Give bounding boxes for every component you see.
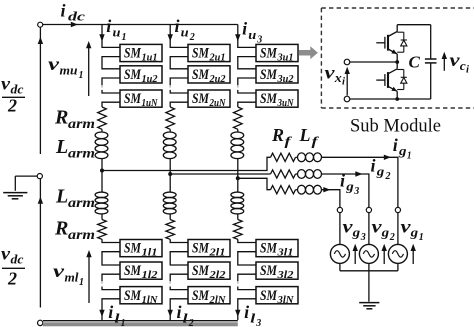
resistor R_arm upper leg 2 <box>166 107 175 129</box>
wire: lower arm from junction 3 <box>237 178 239 192</box>
arrow: submodule detail callout (gray) <box>299 46 318 59</box>
svg-text:1l2: 1l2 <box>142 270 158 281</box>
wire: omitted submodules upper leg 3 (dashed) <box>237 85 239 90</box>
svg-text:2: 2 <box>389 232 395 243</box>
inductor L_f phase 3 <box>298 185 306 194</box>
transistor S1 (upper IGBT) <box>396 25 398 32</box>
wire: lower arm from junction 1 <box>101 171 103 193</box>
AC source v_g1 <box>388 244 407 263</box>
wire: SM_3u1 to SM_3u2 <box>238 57 256 69</box>
svg-text:L: L <box>55 136 68 158</box>
svg-text:SM: SM <box>260 67 278 83</box>
wire: neutral stem <box>368 271 370 302</box>
wire: SM_2u1 to SM_2u2 <box>170 57 188 69</box>
wire <box>169 129 171 132</box>
wire: omitted submodules upper leg 1 (dashed) <box>101 85 103 90</box>
wire: to phase junction 2 <box>169 159 171 174</box>
wire: SM_1uN entry <box>102 90 120 93</box>
arrow: v_dc/2 upper (up) <box>38 37 43 44</box>
svg-text:SM: SM <box>192 91 210 107</box>
wire <box>296 156 298 158</box>
svg-text:i: i <box>244 302 249 322</box>
svg-text:Sub Module: Sub Module <box>350 117 441 137</box>
svg-text:2u1: 2u1 <box>208 53 225 64</box>
capacitor C <box>430 25 432 59</box>
node: DC negative terminal <box>38 320 43 325</box>
svg-text:SM: SM <box>124 241 142 257</box>
svg-text:arm: arm <box>68 147 95 162</box>
svg-text:1u2: 1u2 <box>142 74 158 85</box>
node: submodule terminal lower (open circle) <box>344 96 350 102</box>
svg-text:SM: SM <box>124 91 142 107</box>
svg-text:3uN: 3uN <box>277 98 295 109</box>
svg-text:i: i <box>393 135 398 155</box>
svg-text:3u1: 3u1 <box>276 53 293 64</box>
wire: SM_3u2 exit <box>238 78 256 85</box>
svg-text:SM: SM <box>260 91 278 107</box>
submodule SM_2uN <box>188 90 230 107</box>
node: phase 1 junction <box>100 169 104 173</box>
svg-text:L: L <box>299 125 311 145</box>
wire: phase 2 to filter <box>170 173 270 175</box>
svg-text:1: 1 <box>79 70 84 81</box>
wire: SM_2u2 exit <box>170 78 188 85</box>
svg-text:SM: SM <box>192 263 210 279</box>
svg-text:L: L <box>55 186 68 208</box>
arrow: v_g3 polarity (up) <box>354 247 356 264</box>
wire: grid neutral bus <box>340 270 398 272</box>
svg-text:i: i <box>108 302 113 322</box>
wire: SM_2lN to bottom bus <box>170 299 188 320</box>
wire: source v_g3 to neutral <box>339 263 341 270</box>
svg-text:2lN: 2lN <box>208 295 226 306</box>
arrow: i_dc direction <box>71 22 78 27</box>
arrow: v_ci measurement (up) <box>443 55 445 71</box>
submodule SM_1lN <box>120 287 162 304</box>
inductor L_f phase 1 <box>298 153 306 162</box>
svg-text:3l2: 3l2 <box>276 270 293 281</box>
node: emitter junction <box>395 97 399 101</box>
wire: SM_1lN entry <box>102 287 120 290</box>
svg-text:g: g <box>410 225 419 240</box>
arrow: i_l2 (down) <box>168 310 173 317</box>
wire: phase 1 to grid terminal <box>322 157 398 207</box>
arrow: i_g1 <box>384 155 391 160</box>
svg-text:2l1: 2l1 <box>208 248 225 259</box>
wire <box>101 129 103 132</box>
submodule SM_1l2 <box>120 262 162 279</box>
svg-text:1: 1 <box>122 32 127 43</box>
submodule SM_2l1 <box>188 240 230 257</box>
svg-text:i: i <box>242 19 247 39</box>
resistor R_arm lower leg 2 <box>166 220 175 240</box>
wire: upper arm leg 3 entry <box>238 25 256 48</box>
submodule SM_2u1 <box>188 44 230 61</box>
wire: SM_3l2 exit <box>238 274 256 281</box>
inductor L_arm upper leg 2 <box>163 132 176 139</box>
submodule SM_2lN <box>188 287 230 304</box>
wire: upper arm leg 1 entry <box>102 25 120 48</box>
svg-text:3lN: 3lN <box>276 295 294 306</box>
arrow: v_g2 polarity (up) <box>383 247 385 264</box>
submodule SM_3lN <box>256 287 298 304</box>
wire: SM_1l2 exit <box>102 274 120 281</box>
svg-text:SM: SM <box>124 46 142 62</box>
wire: top DC bus <box>43 24 238 26</box>
svg-text:SM: SM <box>260 46 278 62</box>
svg-text:i: i <box>61 1 66 21</box>
wire: omitted submodules upper leg 2 (dashed) <box>169 85 171 90</box>
svg-text:1: 1 <box>121 318 126 327</box>
wire: SM_3uN entry <box>238 90 256 93</box>
svg-text:1l1: 1l1 <box>142 248 158 259</box>
arrow: v_mu1 (up) <box>88 44 90 96</box>
wire: SM_1l1 to SM_1l2 <box>102 252 120 265</box>
wire: SM_2l2 exit <box>170 274 188 281</box>
wire: SM_2uN to R_arm <box>170 102 188 107</box>
svg-text:3: 3 <box>353 186 359 197</box>
submodule detail: dashed border <box>320 8 322 108</box>
wire: SM_2lN entry <box>170 287 188 290</box>
submodule SM_3u1 <box>256 44 298 61</box>
arrow: v_dc/2 lower (up) <box>38 197 43 204</box>
svg-text:SM: SM <box>260 241 278 257</box>
inductor L_arm upper leg 3 <box>231 132 244 139</box>
arrow: v_x measurement (up) <box>346 70 348 95</box>
wire: omitted submodules lower leg 3 (dashed) <box>237 281 239 286</box>
wire: submodule top rail <box>397 24 431 26</box>
svg-text:SM: SM <box>260 263 278 279</box>
arrow: i_u3 (down) <box>235 34 240 41</box>
svg-text:g: g <box>376 164 385 179</box>
wire: SM_1lN to bottom bus <box>102 299 120 320</box>
svg-text:SM: SM <box>192 46 210 62</box>
submodule SM_2l2 <box>188 262 230 279</box>
resistor R_f phase 2 <box>271 170 296 178</box>
svg-text:C: C <box>409 53 421 72</box>
node: grid terminal phase 3 (open circle) <box>337 207 342 212</box>
wire: phase 3 to filter <box>238 178 271 189</box>
arrow: i_u1 (down) <box>99 34 104 41</box>
wire: terminal to source v_g3 <box>339 213 341 245</box>
submodule SM_3u2 <box>256 66 298 83</box>
svg-text:dc: dc <box>68 9 85 24</box>
node: grid terminal phase 2 (open circle) <box>366 207 371 212</box>
submodule SM_3l2 <box>256 262 298 279</box>
inductor L_arm lower leg 1 <box>95 192 108 198</box>
submodule SM_3uN <box>256 90 298 107</box>
svg-text:i: i <box>340 171 345 191</box>
node: DC positive terminal <box>38 22 43 27</box>
svg-text:g: g <box>398 143 407 158</box>
svg-text:SM: SM <box>124 263 142 279</box>
svg-text:arm: arm <box>68 117 95 132</box>
svg-text:3l1: 3l1 <box>276 248 293 259</box>
svg-text:2u2: 2u2 <box>208 74 225 85</box>
svg-text:u: u <box>181 25 189 40</box>
wire: SM_1u1 to SM_1u2 <box>102 57 120 69</box>
svg-text:2uN: 2uN <box>209 98 227 109</box>
svg-text:2: 2 <box>385 171 391 182</box>
svg-text:mu: mu <box>60 63 78 78</box>
wire <box>101 214 103 220</box>
resistor R_f phase 3 <box>271 186 296 194</box>
node: submodule terminal upper (open circle) <box>344 59 350 65</box>
svg-text:u: u <box>113 25 121 40</box>
wire: SM_1uN to R_arm <box>102 102 120 107</box>
svg-text:SM: SM <box>124 67 142 83</box>
resistor R_f phase 1 <box>271 153 296 161</box>
svg-text:i: i <box>177 302 182 322</box>
arrow: i_g2 <box>355 171 362 176</box>
diode D2 (antiparallel, lower) <box>397 69 404 71</box>
svg-text:2: 2 <box>7 96 17 116</box>
svg-text:2: 2 <box>189 32 195 43</box>
svg-text:dc: dc <box>11 252 24 267</box>
svg-text:2: 2 <box>188 318 194 327</box>
resistor R_arm lower leg 1 <box>98 220 107 240</box>
node: grid terminal phase 1 (open circle) <box>395 207 400 212</box>
wire: SM_3lN to bottom bus <box>238 299 256 320</box>
wire: SM_3uN to R_arm <box>238 102 256 107</box>
wire: bottom DC bus thick gray <box>43 322 238 326</box>
wire: upper arm leg 2 entry <box>170 25 188 48</box>
svg-text:i: i <box>106 16 111 36</box>
wire: bottom DC bus <box>43 320 238 322</box>
wire: left DC rail lower <box>39 179 41 308</box>
svg-text:SM: SM <box>124 288 142 304</box>
svg-text:3u2: 3u2 <box>276 74 293 85</box>
wire: source v_g2 to neutral <box>368 263 370 270</box>
wire: R_arm to SM_3l1 <box>238 239 256 242</box>
svg-text:i: i <box>342 77 345 88</box>
svg-text:arm: arm <box>68 196 95 211</box>
svg-text:l: l <box>250 311 256 326</box>
svg-text:l: l <box>115 311 121 326</box>
wire: R_arm to SM_1l1 <box>102 239 120 242</box>
ground: DC midpoint <box>37 174 42 179</box>
arrow: i_u2 (down) <box>168 34 173 41</box>
inductor L_f phase 2 <box>298 170 306 179</box>
wire: upper terminal to midpoint <box>350 61 397 63</box>
svg-text:1: 1 <box>419 232 424 243</box>
svg-text:u: u <box>248 27 256 42</box>
svg-text:i: i <box>371 156 376 176</box>
submodule SM_1l1 <box>120 240 162 257</box>
svg-text:g: g <box>345 179 354 194</box>
submodule SM_2u2 <box>188 66 230 83</box>
svg-text:SM: SM <box>260 288 278 304</box>
diode D1 (antiparallel, upper) <box>397 31 404 33</box>
svg-text:SM: SM <box>192 241 210 257</box>
wire <box>237 129 239 132</box>
node: phase 2 junction <box>168 172 172 176</box>
wire: phase 2 to grid terminal <box>322 174 369 207</box>
svg-text:R: R <box>54 107 68 129</box>
wire: terminal to source v_g1 <box>397 213 399 245</box>
wire <box>296 173 298 175</box>
svg-text:1: 1 <box>407 151 412 162</box>
wire: R_arm to SM_2l1 <box>170 239 188 242</box>
AC source v_g2 <box>359 244 378 263</box>
wire: terminal to source v_g2 <box>368 213 370 245</box>
arrow: v_ml1 (up) <box>88 253 90 303</box>
svg-text:R: R <box>271 125 284 145</box>
svg-text:1: 1 <box>79 277 84 288</box>
submodule SM_1u1 <box>120 44 162 61</box>
submodule SM_3l1 <box>256 240 298 257</box>
svg-text:1lN: 1lN <box>142 295 159 306</box>
node: phase 3 junction <box>236 176 240 180</box>
arrow: i_g3 <box>323 187 330 192</box>
svg-text:1uN: 1uN <box>142 98 159 109</box>
wire: omitted submodules lower leg 2 (dashed) <box>169 281 171 286</box>
svg-text:g: g <box>352 225 361 240</box>
svg-text:SM: SM <box>192 288 210 304</box>
svg-text:3: 3 <box>255 318 261 327</box>
wire <box>237 214 239 220</box>
svg-text:SM: SM <box>192 67 210 83</box>
wire: lower terminal to capacitor <box>350 98 431 100</box>
svg-text:l: l <box>183 311 189 326</box>
wire: to phase junction 3 <box>237 159 239 179</box>
inductor L_arm lower leg 2 <box>163 192 176 198</box>
wire <box>296 189 298 191</box>
svg-text:2: 2 <box>7 269 17 289</box>
node: midpoint <box>395 60 399 64</box>
resistor R_arm lower leg 3 <box>234 220 243 240</box>
arrow: i_l3 (down) <box>235 310 240 317</box>
wire: phase 1 to filter <box>102 157 271 170</box>
svg-text:i: i <box>175 16 180 36</box>
wire: SM_3l1 to SM_3l2 <box>238 252 256 265</box>
svg-text:i: i <box>466 65 469 76</box>
wire: SM_2l1 to SM_2l2 <box>170 252 188 265</box>
wire: to phase junction 1 <box>101 159 103 171</box>
submodule SM_1uN <box>120 90 162 107</box>
wire: left DC rail upper <box>39 27 41 154</box>
inductor L_arm upper leg 1 <box>95 132 108 139</box>
svg-text:arm: arm <box>68 228 95 243</box>
wire: SM_2uN entry <box>170 90 188 93</box>
wire: source v_g1 to neutral <box>397 263 399 270</box>
resistor R_arm upper leg 1 <box>98 107 107 129</box>
svg-text:2l2: 2l2 <box>208 270 225 281</box>
svg-text:1u1: 1u1 <box>142 53 158 64</box>
AC source v_g3 <box>330 244 349 263</box>
svg-text:ml: ml <box>65 270 79 285</box>
wire <box>169 214 171 220</box>
ground: grid neutral <box>359 302 379 304</box>
wire: phase 3 to grid terminal <box>322 190 340 208</box>
wire: SM_1u2 exit <box>102 78 120 85</box>
inductor L_arm lower leg 3 <box>231 192 244 198</box>
submodule SM_1u2 <box>120 66 162 83</box>
svg-text:g: g <box>381 225 390 240</box>
svg-text:3: 3 <box>360 232 366 243</box>
arrow: v_g1 polarity (up) <box>412 247 414 264</box>
wire: omitted submodules lower leg 1 (dashed) <box>101 281 103 286</box>
wire: SM_3lN entry <box>238 287 256 290</box>
transistor S2 (lower IGBT) <box>396 62 398 69</box>
resistor R_arm upper leg 3 <box>234 107 243 129</box>
arrow: i_l1 (down) <box>99 310 104 317</box>
svg-text:R: R <box>54 218 68 240</box>
svg-text:dc: dc <box>11 82 24 97</box>
wire: lower arm from junction 2 <box>169 174 171 192</box>
